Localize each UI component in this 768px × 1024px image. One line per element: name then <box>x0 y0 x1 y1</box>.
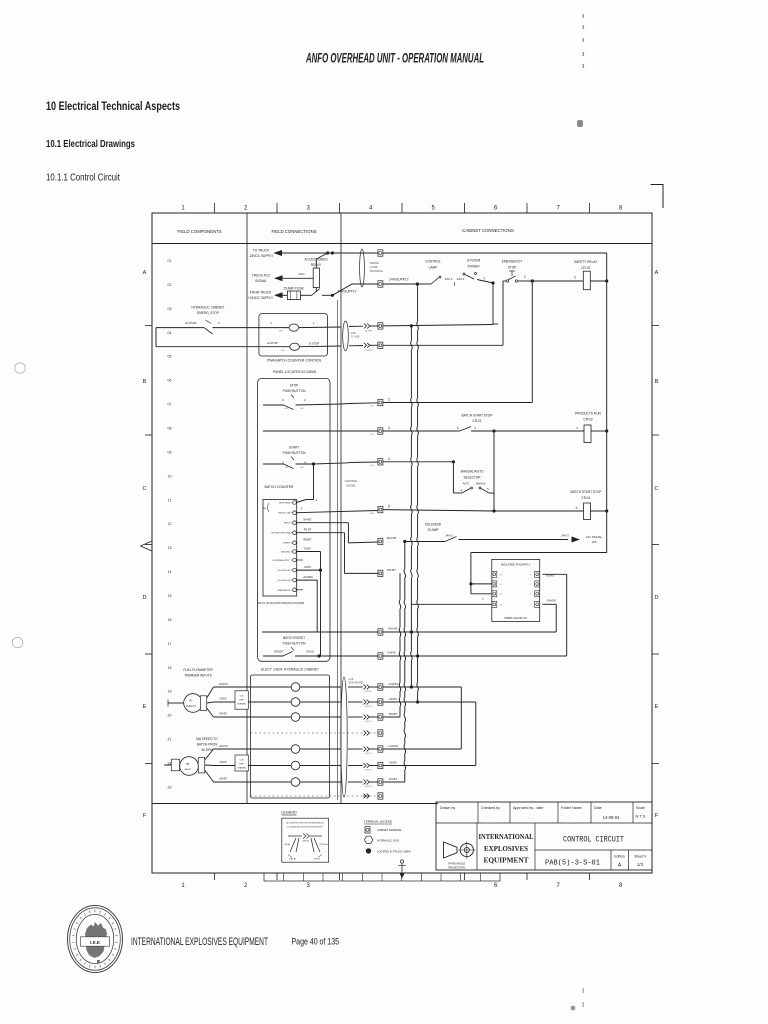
svg-text:F: F <box>143 813 147 819</box>
svg-text:2: 2 <box>388 398 390 402</box>
svg-text:E: E <box>655 704 659 710</box>
svg-text:V+: V+ <box>500 604 502 606</box>
j-box row PD-BT y=717 <box>250 716 291 718</box>
svg-text:ACC: ACC <box>298 272 305 276</box>
svg-text:LOCATED IN/ON PROX MOUNT/POST: LOCATED IN/ON PROX MOUNT/POST <box>287 826 323 829</box>
svg-text:20: 20 <box>168 714 172 718</box>
svg-text:CR-02: CR-02 <box>583 418 592 422</box>
svg-text:Page 40 of 135: Page 40 of 135 <box>292 936 340 947</box>
riser from e-stop return row 05 up to emergency stop <box>502 281 504 345</box>
svg-text:Checked by: Checked by <box>481 806 500 810</box>
svg-text:24V-2: 24V-2 <box>561 534 569 538</box>
diff channel box C05 <box>235 691 248 709</box>
svg-text:LEGEND: LEGEND <box>281 811 297 815</box>
wire to junction below system power <box>477 280 493 284</box>
speed sensor wires to jbox <box>205 749 214 760</box>
batch counter box <box>263 500 297 597</box>
bus 1 vertical <box>410 326 412 341</box>
selector output drop to row 5 <box>493 431 495 511</box>
svg-text:GN/IS: GN/IS <box>389 760 397 764</box>
svg-text:FIELD COMPONENTS: FIELD COMPONENTS <box>177 229 221 234</box>
j-box row GN/IS y=765.5 <box>250 765 291 767</box>
logo ring lettering marks <box>94 910 96 913</box>
svg-text:3: 3 <box>388 426 390 430</box>
wire emergency stop to safety relay <box>518 280 533 282</box>
svg-text:RD: RD <box>285 467 289 469</box>
svg-text:05: 05 <box>168 355 172 359</box>
svg-text:BU: BU <box>370 465 373 467</box>
e-stop button circle 2 <box>290 343 300 350</box>
wire supply row to control lamp <box>383 283 417 285</box>
svg-text:24V-1: 24V-1 <box>445 277 453 281</box>
terminal A01 <box>378 250 383 256</box>
svg-text:14: 14 <box>168 570 172 574</box>
svg-text:5: 5 <box>388 505 390 509</box>
svg-text:V+: V+ <box>500 594 502 596</box>
svg-text:AN-BT: AN-BT <box>185 768 192 771</box>
svg-text:PRODUCTS RUN: PRODUCTS RUN <box>575 412 601 416</box>
svg-text:PUSH BUTTON: PUSH BUTTON <box>283 389 306 393</box>
svg-text:14-08-04: 14-08-04 <box>603 815 620 820</box>
svg-text:HIGH/TENS 6: HIGH/TENS 6 <box>279 503 293 505</box>
terminal 3 <box>378 428 383 434</box>
svg-text:TRIMMER INPUTS: TRIMMER INPUTS <box>184 674 211 678</box>
chevrons e-stop rows <box>349 325 363 327</box>
svg-text:+24V/IS: +24V/IS <box>388 682 398 686</box>
isolated p/supply U2 <box>492 559 540 621</box>
j-box row spare y=733 <box>250 732 362 734</box>
wire row 07 stop to terminal <box>349 402 378 405</box>
svg-text:V+: V+ <box>500 574 502 576</box>
row GN/IS <box>321 655 378 657</box>
svg-text:24V/PN: 24V/PN <box>365 691 372 693</box>
scan artifact dashes right margin <box>583 14 585 18</box>
svg-text:02: 02 <box>168 283 172 287</box>
svg-text:CHANNEL: CHANNEL <box>237 703 247 706</box>
terminal A02 24V supply <box>378 281 383 287</box>
iso supply input wire from bus1 <box>411 603 491 605</box>
svg-text:24V/PN: 24V/PN <box>365 350 373 352</box>
start junction drop to counter pin 6 <box>313 464 315 500</box>
arrow 24V signal out <box>572 537 581 543</box>
svg-text:LOCATED IN TRUCK CABIN: LOCATED IN TRUCK CABIN <box>377 849 411 853</box>
svg-text:10.1.1 Control Circuit: 10.1.1 Control Circuit <box>46 173 120 184</box>
logo australia map upper <box>85 922 107 937</box>
svg-text:P1: P1 <box>189 699 193 703</box>
header band separator <box>152 243 652 245</box>
svg-text:CONTROL CIRCUIT: CONTROL CIRCUIT <box>563 836 624 845</box>
wire row 08 / batch start stop contact <box>263 430 378 432</box>
svg-text:BATCH COUNTER: BATCH COUNTER <box>265 485 294 489</box>
svg-text:THIRD ANGLE: THIRD ANGLE <box>448 862 466 866</box>
j-box row spare y=796 <box>250 795 362 797</box>
pd-bt riser right <box>383 716 400 718</box>
svg-text:24V/IS: 24V/IS <box>302 841 309 843</box>
terminal GN/IS <box>378 653 383 659</box>
svg-text:24V/PN: 24V/PN <box>365 706 372 708</box>
svg-text:RELAY COM 5: RELAY COM 5 <box>278 512 293 515</box>
svg-text:15A: 15A <box>592 540 597 544</box>
ground pin riser <box>296 551 320 553</box>
legend wire symbol <box>288 835 302 837</box>
svg-text:TERMINAL LEGEND: TERMINAL LEGEND <box>364 820 393 824</box>
svg-text:B: B <box>655 379 659 385</box>
switch accessory contact <box>301 294 312 296</box>
svg-text:24V/PN: 24V/PN <box>365 770 372 772</box>
arrow to truck -24VDC supply <box>274 250 283 256</box>
svg-text:Sheet #: Sheet # <box>634 855 646 859</box>
dc pin2 riser <box>296 579 317 581</box>
svg-text:23: 23 <box>168 785 172 789</box>
svg-text:CR-01: CR-01 <box>472 419 481 423</box>
wire row 01 to terminal <box>282 252 378 254</box>
svg-text:MA SPEED TO: MA SPEED TO <box>196 737 218 741</box>
svg-text:15: 15 <box>168 594 172 598</box>
svg-text:PD-BT: PD-BT <box>304 529 312 532</box>
svg-text:GN/IS: GN/IS <box>219 760 226 764</box>
svg-text:24V/PN: 24V/PN <box>365 753 372 755</box>
svg-text:CR-01: CR-01 <box>581 496 590 500</box>
svg-text:HYDRAULIC CABINET: HYDRAULIC CABINET <box>191 306 224 310</box>
svg-text:RD: RD <box>281 350 285 352</box>
svg-text:I.E.E: I.E.E <box>90 940 100 945</box>
svg-text:GN/IS: GN/IS <box>219 697 226 701</box>
svg-text:SAFETY RELAY: SAFETY RELAY <box>574 260 598 264</box>
svg-text:04: 04 <box>168 331 172 335</box>
zone row ticks left <box>145 325 152 327</box>
right supply bus from row 01 <box>606 253 608 553</box>
+24V/IS lower loop <box>411 686 461 688</box>
zone row ticks right <box>652 325 659 327</box>
svg-text:Drawn by: Drawn by <box>440 806 455 810</box>
svg-text:Scale: Scale <box>636 806 645 810</box>
svg-text:24V/PN: 24V/PN <box>365 786 372 788</box>
svg-text:+24V/BN: +24V/BN <box>302 576 312 579</box>
control panel enclosure <box>258 378 330 661</box>
cable loom oval row A <box>360 249 365 287</box>
svg-text:15 AMP FUSE: 15 AMP FUSE <box>283 286 304 290</box>
batch counter pins <box>293 501 297 505</box>
wire row 01 to right bus <box>383 252 607 254</box>
svg-text:15 AMP: 15 AMP <box>427 528 438 532</box>
svg-text:MANUAL: MANUAL <box>476 483 487 486</box>
svg-text:C: C <box>654 486 658 492</box>
riser GN/IS to iso supply right pin <box>566 574 568 656</box>
svg-text:P/4 Bx: P/4 Bx <box>314 859 320 861</box>
wire rising to supply terminal <box>332 284 378 295</box>
svg-text:GN/IS: GN/IS <box>546 574 554 578</box>
svg-text:GN/IS: GN/IS <box>387 651 395 655</box>
terminal 4 <box>378 459 383 465</box>
svg-text:C/B2 Bx: C/B2 Bx <box>289 859 296 861</box>
svg-text:MA-TN (10-KEY)(ANT/GROUND COUN: MA-TN (10-KEY)(ANT/GROUND COUNTER) <box>258 602 305 605</box>
svg-text:HYDRAULIC JACK: HYDRAULIC JACK <box>377 838 400 842</box>
svg-text:03: 03 <box>168 307 172 311</box>
title block outline <box>436 802 652 870</box>
svg-text:ALL EQPT/PLUGS FOR WORKS/TRUCK: ALL EQPT/PLUGS FOR WORKS/TRUCK <box>286 822 324 825</box>
speed sensor BT symbol <box>171 759 179 771</box>
svg-text:24V-2: 24V-2 <box>445 534 453 538</box>
svg-text:21: 21 <box>168 738 172 742</box>
svg-text:PEBA 2412D-C6: PEBA 2412D-C6 <box>505 616 528 620</box>
svg-text:TO TRUCK: TO TRUCK <box>253 249 270 253</box>
GN/IS lower loop <box>418 701 476 703</box>
flowmeter FT symbol <box>184 694 203 713</box>
svg-text:-24V/IS: -24V/IS <box>387 627 397 631</box>
row WH-BT to terminal <box>348 541 378 544</box>
svg-text:EMERGENCY: EMERGENCY <box>502 260 523 264</box>
svg-text:CONTROL: CONTROL <box>425 260 441 264</box>
svg-text:BT: BT <box>186 762 190 766</box>
column divider field components/connections <box>246 213 248 804</box>
pin6 stub to start junction <box>296 500 306 503</box>
svg-text:EXPLOSIVES: EXPLOSIVES <box>484 844 528 853</box>
svg-text:Edition: Edition <box>614 855 624 859</box>
svg-text:10 Electrical Technical Aspec: 10 Electrical Technical Aspects <box>46 99 180 113</box>
j-box row +24V/IS y=687 <box>250 686 291 688</box>
svg-text:C/TRL Bx: C/TRL Bx <box>319 844 328 846</box>
svg-text:A: A <box>655 270 659 276</box>
terminal row 04 <box>378 323 383 329</box>
svg-text:RESET 3: RESET 3 <box>283 543 292 545</box>
svg-text:GN/IS: GN/IS <box>389 697 397 701</box>
svg-text:PD-BT: PD-BT <box>219 712 227 716</box>
svg-text:OG: OG <box>370 434 374 436</box>
riser -24V/IS to iso supply right pin <box>555 604 557 632</box>
iso supply pins <box>492 571 497 577</box>
svg-text:PROJECTION: PROJECTION <box>448 866 465 870</box>
svg-text:GN/IS: GN/IS <box>306 650 314 654</box>
svg-text:+24V/IS: +24V/IS <box>218 744 228 748</box>
svg-text:ELECT J-BOX HYDRAULIC CABINET: ELECT J-BOX HYDRAULIC CABINET <box>261 668 319 672</box>
svg-text:TRUCK ACC: TRUCK ACC <box>252 274 271 278</box>
svg-text:TY LINE: TY LINE <box>351 336 360 339</box>
svg-text:10.1 Electrical Drawings: 10.1 Electrical Drawings <box>46 139 135 150</box>
drop wire from system power to e-stop row <box>492 283 494 324</box>
svg-text:RESET: RESET <box>303 539 312 542</box>
wire row04 to system power drop <box>383 325 493 326</box>
svg-text:MANUAL/AUTO: MANUAL/AUTO <box>461 470 484 474</box>
arrow from truck +24VDC supply <box>274 292 283 298</box>
svg-text:DC+6.3S+6V 2: DC+6.3S+6V 2 <box>278 580 293 582</box>
svg-text:DIFF: DIFF <box>239 764 245 766</box>
an-bt riser right <box>383 781 405 783</box>
svg-text:STOP: STOP <box>290 384 299 388</box>
e-stop button circle 1 <box>289 324 299 331</box>
cable oval rows 04-05 <box>343 321 349 351</box>
j-box row AN-BT y=782 <box>250 781 291 783</box>
svg-text:10: 10 <box>168 474 172 478</box>
drop wire from emergency stop node to stop button row <box>531 281 533 403</box>
svg-text:+24V/IS: +24V/IS <box>388 744 398 748</box>
svg-text:06: 06 <box>168 379 172 383</box>
svg-text:FUEL FLOWMETER: FUEL FLOWMETER <box>183 668 213 672</box>
svg-text:POWER: POWER <box>468 265 481 269</box>
terminal PD-BT <box>378 570 383 576</box>
svg-text:PUSH BUTTON: PUSH BUTTON <box>283 451 306 455</box>
svg-text:C/B Bx: C/B Bx <box>284 844 290 846</box>
svg-text:RD: RD <box>300 408 304 410</box>
svg-text:EXTERNAL INPUT 7: EXTERNAL INPUT 7 <box>273 559 293 562</box>
j-box row +24V/IS y=749 <box>250 748 291 750</box>
terminal legend: hydraulic jack <box>364 836 372 843</box>
svg-text:RESET: RESET <box>274 650 284 654</box>
third angle projection symbol <box>444 842 458 858</box>
svg-text:Approved by - date: Approved by - date <box>513 806 543 810</box>
svg-text:INTERNATIONAL: INTERNATIONAL <box>479 832 534 841</box>
footer company logo <box>68 906 123 973</box>
spare dashed row arrow <box>363 795 369 797</box>
left edge centering mark <box>141 541 153 551</box>
svg-text:19: 19 <box>168 690 172 694</box>
svg-text:FUEL/FT: FUEL/FT <box>186 705 196 708</box>
svg-text:24V SIGNAL: 24V SIGNAL <box>586 535 602 539</box>
svg-text:+24V/IS: +24V/IS <box>218 682 228 686</box>
svg-text:SIGNAL: SIGNAL <box>255 279 267 283</box>
svg-text:13: 13 <box>168 546 172 550</box>
svg-text:PD-BT: PD-BT <box>387 568 396 572</box>
scan specks left margin <box>15 363 25 373</box>
svg-text:WH: WH <box>370 513 374 515</box>
svg-text:RD: RD <box>300 467 304 469</box>
svg-text:24V/PN: 24V/PN <box>365 721 372 723</box>
logo IEE banner <box>81 937 110 946</box>
svg-text:C: C <box>142 486 146 492</box>
external input stub <box>296 559 303 561</box>
svg-text:. . .: . . . <box>565 814 571 819</box>
j-box cable oval <box>341 677 347 797</box>
drawing frame border <box>152 213 652 873</box>
wire row 09 start to terminal <box>349 461 378 464</box>
svg-text:CABINET TERMINAL: CABINET TERMINAL <box>377 828 403 832</box>
svg-text:1: 1 <box>483 277 485 281</box>
svg-text:V+: V+ <box>500 584 502 586</box>
terminal 2 <box>378 399 383 405</box>
svg-text:KEY/SW CNTR IN/A 9: KEY/SW CNTR IN/A 9 <box>271 532 293 535</box>
svg-text:B: B <box>143 379 147 385</box>
input1 wire WH-BT riser <box>296 522 348 524</box>
svg-text:INPUT 1: INPUT 1 <box>284 523 293 525</box>
svg-text:LOOM/: LOOM/ <box>370 265 379 269</box>
svg-text:24V/SUPPLY: 24V/SUPPLY <box>338 290 358 294</box>
top-right corner registration mark <box>651 185 664 209</box>
wire to 24V supply junction <box>322 294 332 296</box>
j-box enclosure <box>250 675 329 798</box>
svg-text:CABINET CONNECTIONS: CABINET CONNECTIONS <box>462 228 514 233</box>
svg-text:DIFF: DIFF <box>239 700 245 702</box>
svg-text:CONTROL: CONTROL <box>345 479 358 483</box>
svg-text:E-STOP: E-STOP <box>185 321 196 325</box>
svg-text:E-STOP: E-STOP <box>309 342 319 346</box>
svg-text:SYSTEM: SYSTEM <box>467 259 480 263</box>
svg-text:SOLENOID: SOLENOID <box>425 523 442 527</box>
svg-text:F: F <box>655 813 659 819</box>
svg-text:WH-BT: WH-BT <box>387 536 397 540</box>
terminal legend: located in truck cabin <box>366 848 371 853</box>
row 11 relay com 5 wire <box>296 511 378 513</box>
svg-text:EQUIPMENT: EQUIPMENT <box>484 856 529 865</box>
svg-text:SELECTOR: SELECTOR <box>463 476 481 480</box>
svg-text:17: 17 <box>168 642 172 646</box>
svg-text:09: 09 <box>168 450 172 454</box>
dc pin1 join ground riser <box>296 569 320 571</box>
diff channel box C06 <box>235 755 248 771</box>
svg-text:1/3: 1/3 <box>637 862 643 867</box>
svg-text:WIRING: WIRING <box>370 261 380 265</box>
svg-text:CHANNEL: CHANNEL <box>237 767 247 770</box>
svg-text:DC+6.3S+6V 3: DC+6.3S+6V 3 <box>278 570 293 572</box>
svg-text:DATA EARTH 1: DATA EARTH 1 <box>278 589 293 592</box>
svg-text:WH: WH <box>279 331 283 333</box>
keysw wire PD-BT riser <box>296 532 344 534</box>
svg-text:ISOLATED P/SUPPLY: ISOLATED P/SUPPLY <box>501 563 531 567</box>
svg-text:18: 18 <box>168 666 172 670</box>
svg-text:. . .: . . . <box>487 814 493 819</box>
svg-text:Folder Name: Folder Name <box>561 806 582 810</box>
svg-text:GROUND 3: GROUND 3 <box>281 552 293 554</box>
svg-text:4: 4 <box>388 457 390 461</box>
svg-text:2: 2 <box>524 275 526 279</box>
svg-text:E-STOP: E-STOP <box>267 341 277 345</box>
svg-text:08: 08 <box>168 427 172 431</box>
svg-text:11: 11 <box>168 498 172 502</box>
arrow truck acc signal <box>274 275 283 281</box>
terminal 5 <box>378 506 383 512</box>
terminal -24V/IS <box>378 629 383 635</box>
svg-text:AUTO: AUTO <box>463 483 470 486</box>
svg-text:GN/IS: GN/IS <box>304 566 311 569</box>
j-box right connections <box>383 686 411 688</box>
svg-text:BATCH PROS: BATCH PROS <box>197 743 217 747</box>
svg-text:24V-1: 24V-1 <box>457 277 465 281</box>
wb bracket <box>268 503 270 512</box>
e-stop loop left return <box>155 328 157 347</box>
row -24V/IS <box>262 631 317 633</box>
svg-text:24V/PN: 24V/PN <box>365 331 373 333</box>
fold mark strip <box>264 873 500 881</box>
svg-text:PAB(5)-3-S-01: PAB(5)-3-S-01 <box>545 860 600 868</box>
legend symbol box <box>282 818 329 862</box>
svg-text:ANFO OVERHEAD UNIT - OPERATION: ANFO OVERHEAD UNIT - OPERATION MANUAL <box>305 50 484 65</box>
svg-text:24V/SUPPLY: 24V/SUPPLY <box>389 278 409 282</box>
zone column ticks bottom <box>214 873 216 880</box>
svg-text:STOP: STOP <box>508 266 517 270</box>
svg-text:D: D <box>654 595 658 601</box>
svg-text:RD: RD <box>285 408 289 410</box>
svg-text:-24VDC SUPPLY: -24VDC SUPPLY <box>249 254 274 258</box>
pwa e-stop panel enclosure <box>259 314 328 357</box>
svg-text:07: 07 <box>168 403 172 407</box>
wire acc signal <box>283 277 314 279</box>
svg-text:+24VDC SUPPLY: +24VDC SUPPLY <box>248 296 274 300</box>
svg-text:-24V/IS: -24V/IS <box>546 599 556 603</box>
svg-text:FROM TRUCK: FROM TRUCK <box>250 291 272 295</box>
svg-text:. . .: . . . <box>528 815 534 820</box>
svg-text:12: 12 <box>168 522 172 526</box>
svg-text:EMERG_STOP: EMERG_STOP <box>197 311 219 315</box>
svg-text:PUSH BUTTON: PUSH BUTTON <box>283 642 306 646</box>
title block row1 dividers <box>477 802 479 823</box>
svg-text:LAMP: LAMP <box>429 266 438 270</box>
row PD-BT to terminal <box>345 572 378 574</box>
svg-text:E: E <box>143 704 147 710</box>
svg-text:01: 01 <box>168 259 172 263</box>
svg-text:GY: GY <box>370 406 374 408</box>
svg-text:N.T.S.: N.T.S. <box>636 814 647 819</box>
svg-text:Date: Date <box>594 806 602 810</box>
svg-text:DPW BOARD: DPW BOARD <box>349 682 364 685</box>
bus 2 vertical <box>417 284 419 321</box>
